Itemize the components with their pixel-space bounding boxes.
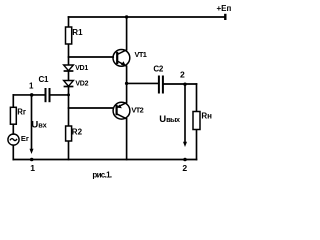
svg-text:VD1: VD1 <box>75 65 88 72</box>
svg-text:C1: C1 <box>39 75 49 84</box>
svg-text:2: 2 <box>182 163 187 173</box>
svg-text:Rн: Rн <box>201 112 212 121</box>
svg-text:2: 2 <box>180 69 185 79</box>
svg-text:Eг: Eг <box>21 134 29 143</box>
svg-text:1: 1 <box>29 81 34 90</box>
svg-text:Rг: Rг <box>17 108 27 117</box>
svg-text:Uвх: Uвх <box>31 120 47 131</box>
svg-text:рис.1.: рис.1. <box>92 170 111 179</box>
svg-text:Uвых: Uвых <box>159 114 181 125</box>
svg-text:C2: C2 <box>153 65 163 74</box>
svg-text:VT2: VT2 <box>131 106 143 115</box>
svg-text:1: 1 <box>30 163 35 173</box>
svg-text:+Eп: +Eп <box>217 4 232 13</box>
svg-text:VT1: VT1 <box>135 50 147 59</box>
svg-text:VD2: VD2 <box>75 80 88 87</box>
svg-text:R1: R1 <box>72 28 83 37</box>
svg-text:R2: R2 <box>72 128 83 137</box>
